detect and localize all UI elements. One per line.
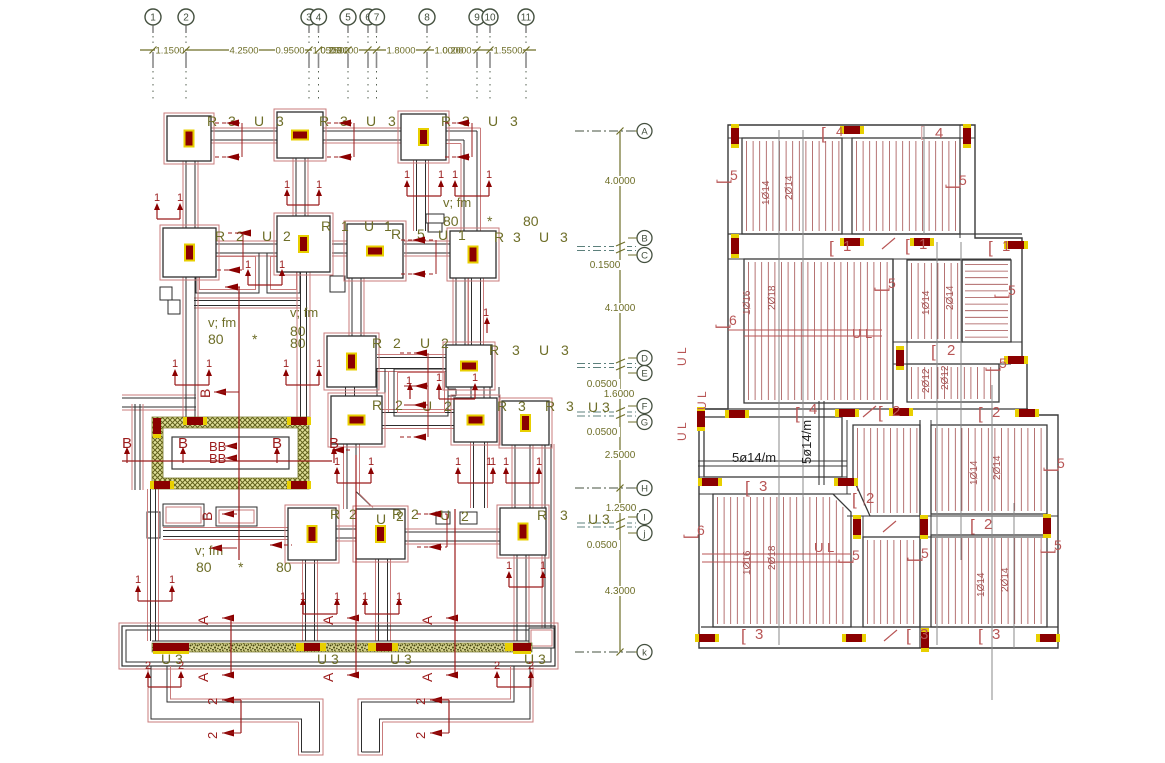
grid bubble 10 [482, 9, 498, 25]
bottom band lines [701, 626, 1058, 628]
svg-text:1: 1 [472, 372, 478, 384]
svg-text:3: 3 [560, 507, 568, 523]
svg-text:U: U [539, 342, 549, 358]
rebar callout pair P-G [286, 384, 319, 386]
svg-text:2: 2 [183, 13, 189, 24]
svg-text:4.1000: 4.1000 [605, 303, 636, 314]
extra arrow P-R [409, 389, 411, 399]
svg-text:1: 1 [300, 591, 306, 603]
left wall below hatch box [150, 489, 152, 641]
construction line v6 [1013, 503, 1015, 648]
rebar line in ML room [728, 329, 882, 331]
svg-text:[: [ [988, 238, 993, 257]
svg-text:1: 1 [483, 307, 489, 319]
svg-text:v; fm: v; fm [290, 305, 318, 320]
svg-text:7: 7 [374, 13, 380, 24]
svg-text:2: 2 [494, 660, 500, 672]
svg-text:R: R [391, 226, 401, 242]
svg-text:2: 2 [205, 732, 220, 739]
rebar callout pair P-J [458, 482, 493, 484]
svg-text:5ø14/m: 5ø14/m [732, 450, 776, 465]
single arrow S1 [486, 323, 488, 333]
svg-text:2: 2 [283, 228, 291, 244]
vertical beam C5 down [300, 272, 302, 417]
svg-text:E: E [641, 369, 647, 380]
svg-text:[: [ [745, 478, 750, 497]
svg-text:1: 1 [1002, 238, 1010, 255]
grid bubble D [637, 351, 652, 366]
column C13 [499, 398, 552, 448]
vertical wall x847 [846, 420, 848, 494]
svg-text:R: R [494, 229, 504, 245]
svg-text:1: 1 [150, 13, 156, 24]
svg-text:U: U [366, 113, 376, 129]
svg-text:[: [ [1042, 467, 1059, 472]
right foundation leg [362, 666, 515, 752]
top beam row C2-C3 [323, 130, 401, 132]
svg-text:U L: U L [814, 540, 834, 555]
svg-text:1: 1 [316, 358, 322, 370]
column C14 [285, 505, 339, 563]
wall below 5ø14 room [699, 476, 847, 478]
svg-text:1Ø16: 1Ø16 [742, 290, 753, 315]
svg-text:4.0000: 4.0000 [605, 176, 636, 187]
vertical wall between BL and BM [850, 512, 852, 627]
svg-text:[: [ [715, 179, 732, 184]
column C9 [324, 333, 379, 390]
slab panel TL [742, 138, 842, 234]
slab panel TR [852, 138, 960, 234]
svg-text:[: [ [1039, 549, 1056, 554]
partition wall b [194, 300, 300, 302]
rebar callout pair P-C2 [287, 204, 319, 206]
column C10 [443, 342, 495, 390]
svg-text:2: 2 [866, 490, 874, 507]
svg-text:v; fm: v; fm [208, 315, 236, 330]
slab panel ML [744, 259, 893, 403]
svg-text:3: 3 [759, 478, 767, 495]
svg-text:R: R [321, 218, 331, 234]
svg-text:1: 1 [341, 218, 349, 234]
svg-text:[: [ [931, 342, 936, 361]
svg-text:BB: BB [209, 451, 226, 466]
svg-text:3: 3 [388, 113, 396, 129]
vertical beam C4 down [185, 277, 187, 417]
svg-text:U L: U L [675, 347, 689, 366]
partition room below C4-C5 beam right [267, 253, 300, 293]
svg-text:A: A [419, 672, 435, 682]
svg-text:B: B [197, 389, 213, 398]
top dimension line [140, 49, 536, 51]
svg-text:2: 2 [145, 660, 151, 672]
svg-text:U: U [488, 113, 498, 129]
svg-text:1Ø14: 1Ø14 [761, 180, 772, 205]
svg-text:3: 3 [513, 229, 521, 245]
svg-text:5ø14/m: 5ø14/m [799, 420, 814, 464]
svg-text:[: [ [878, 403, 883, 422]
partition room below C4-C5 beam left [196, 253, 259, 293]
svg-text:1: 1 [486, 169, 492, 181]
rebar callout pair P-R [439, 398, 475, 400]
vertical below C14 [305, 560, 307, 641]
svg-text:80: 80 [276, 559, 292, 575]
grid bubble F [637, 399, 652, 414]
section arrow motif M3 [445, 122, 472, 124]
svg-text:1Ø14: 1Ø14 [921, 290, 932, 315]
column C11 [328, 393, 385, 447]
svg-text:1.1500: 1.1500 [155, 46, 184, 57]
vertical wall between BM and BR [919, 420, 921, 648]
svg-text:1: 1 [438, 169, 444, 181]
grid bubble j [637, 526, 652, 541]
svg-text:[: [ [905, 236, 910, 255]
5ø14 room walls [704, 417, 842, 477]
svg-text:A: A [195, 672, 211, 682]
door jamb b [168, 300, 180, 314]
svg-text:80: 80 [443, 213, 459, 229]
svg-text:U: U [262, 228, 272, 244]
svg-text:*: * [238, 559, 244, 575]
svg-text:1: 1 [245, 259, 251, 271]
svg-text:U: U [254, 113, 264, 129]
slab panel M-small [907, 364, 999, 402]
svg-text:1: 1 [279, 259, 285, 271]
svg-text:R: R [207, 113, 217, 129]
svg-text:G: G [641, 418, 648, 429]
svg-text:1: 1 [506, 560, 512, 572]
svg-text:2: 2 [947, 342, 955, 359]
svg-text:4: 4 [935, 125, 943, 142]
jog right of partition room [448, 388, 456, 390]
svg-text:80: 80 [196, 559, 212, 575]
svg-text:U: U [539, 229, 549, 245]
svg-text:3: 3 [566, 398, 574, 414]
column C3 [398, 111, 449, 163]
door jamb a [160, 287, 172, 300]
rebar callout pair P-K [506, 482, 539, 484]
band line between top and middle [728, 233, 1022, 235]
column C4 [160, 225, 219, 280]
svg-text:1Ø14: 1Ø14 [976, 572, 987, 597]
svg-text:1: 1 [284, 179, 290, 191]
column C6 [344, 221, 406, 281]
svg-text:k: k [642, 648, 647, 659]
slab panel BM-lower [863, 537, 920, 627]
rebar callout pair P-H [138, 600, 172, 602]
svg-text:2Ø14: 2Ø14 [784, 175, 795, 200]
svg-text:1: 1 [919, 236, 927, 253]
svg-text:2: 2 [413, 698, 428, 705]
svg-text:[: [ [978, 626, 983, 645]
svg-text:1: 1 [206, 358, 212, 370]
section line B vertical [238, 287, 240, 560]
svg-text:1: 1 [536, 456, 542, 468]
door jamb c [330, 276, 345, 292]
svg-text:2.5000: 2.5000 [605, 450, 636, 461]
rebar callout pair P-B [407, 195, 441, 197]
svg-text:[: [ [741, 626, 746, 645]
grid bubble 11 [518, 9, 534, 25]
svg-text:U: U [420, 335, 430, 351]
svg-text:[: [ [852, 490, 857, 509]
connector right C10-C13 [489, 387, 491, 399]
svg-text:1: 1 [169, 574, 175, 586]
svg-text:0.0500: 0.0500 [587, 427, 618, 438]
svg-text:1: 1 [368, 456, 374, 468]
svg-text:2: 2 [395, 397, 403, 413]
top-right vertical beam [463, 140, 465, 231]
section arrow motif M1 [215, 122, 242, 124]
grid bubble 5 [340, 9, 356, 25]
svg-text:U: U [440, 507, 450, 523]
svg-text:2Ø14: 2Ø14 [992, 455, 1003, 480]
small room a [163, 504, 204, 526]
grid bubble G [637, 415, 652, 430]
svg-text:3: 3 [510, 113, 518, 129]
svg-text:U L: U L [852, 326, 872, 341]
section arrow motif M2 [327, 122, 354, 124]
row4 beam C14-C15 [336, 528, 356, 530]
svg-text:1: 1 [436, 372, 442, 384]
connector C9-C11 [345, 387, 347, 396]
svg-text:U 3: U 3 [588, 511, 610, 527]
bottom strip anchor blocks [153, 643, 189, 651]
rebar callout pair P-L [509, 586, 543, 588]
svg-text:F: F [642, 402, 648, 413]
grid bubble 9 [469, 9, 485, 25]
vertical beam C2-C5 [295, 158, 297, 216]
rebar callout pair P-V14 [303, 613, 337, 615]
sideways B bottom arrow [210, 545, 222, 552]
grid bubble 3 [301, 9, 317, 25]
svg-text:R: R [441, 113, 451, 129]
svg-text:R: R [537, 507, 547, 523]
svg-text:R: R [215, 228, 225, 244]
right grid dimension texts [602, 176, 638, 186]
svg-text:U: U [364, 218, 374, 234]
svg-text:80: 80 [290, 335, 306, 351]
bottom band right notch [529, 628, 554, 648]
svg-text:1: 1 [334, 591, 340, 603]
svg-text:1: 1 [455, 456, 461, 468]
construction line v7 [923, 126, 925, 234]
svg-text:4.2500: 4.2500 [229, 46, 258, 57]
row2 beam C6-C7 [404, 243, 450, 245]
rebar callout pair P-M [148, 686, 181, 688]
middle vertical wall [892, 259, 894, 409]
wall above vfm room [163, 530, 288, 532]
svg-text:1: 1 [503, 456, 509, 468]
slab panel BM-upper [853, 425, 920, 516]
svg-text:A: A [419, 615, 435, 625]
svg-text:U L: U L [675, 422, 689, 441]
svg-text:2Ø12: 2Ø12 [940, 365, 951, 390]
grid bubble 7 [369, 9, 385, 25]
svg-text:1.8000: 1.8000 [386, 46, 415, 57]
svg-text:A: A [641, 127, 648, 138]
vertical below C11 [346, 444, 348, 509]
svg-text:R: R [545, 398, 555, 414]
svg-text:2Ø14: 2Ø14 [945, 285, 956, 310]
bottom band inner wall top [152, 640, 532, 642]
svg-text:[: [ [978, 404, 983, 423]
rebar callout pair P-C [455, 195, 489, 197]
svg-text:I: I [643, 513, 646, 524]
right plan top section inner lines [728, 137, 975, 139]
svg-text:1: 1 [362, 591, 368, 603]
rebar callout pair P-N [497, 686, 531, 688]
row4 beam C15-C16 [405, 531, 500, 533]
beam C9-C10 [377, 357, 446, 359]
rebar callout pair P-C45 [248, 284, 282, 286]
single dashed arrow near C14 [270, 544, 292, 546]
svg-text:A: A [320, 672, 336, 682]
svg-text:[: [ [993, 294, 1010, 299]
svg-text:0.9500: 0.9500 [275, 46, 304, 57]
svg-text:9: 9 [474, 13, 480, 24]
grid bubble 6 [360, 9, 376, 25]
arrow into B line [225, 286, 240, 288]
vertical below C13 [514, 444, 516, 508]
door jamb e [428, 223, 442, 232]
svg-text:R: R [330, 506, 340, 522]
bottom section top band [699, 408, 1028, 410]
svg-text:1: 1 [154, 192, 160, 204]
svg-text:U L: U L [695, 391, 709, 410]
left lower wall [122, 397, 196, 399]
slab panel BL [713, 494, 851, 627]
svg-text:4: 4 [836, 124, 843, 139]
column C15 [353, 506, 408, 562]
svg-text:[: [ [821, 124, 826, 143]
svg-text:2: 2 [393, 335, 401, 351]
svg-text:2: 2 [984, 516, 992, 533]
row2 beam C4-C5 [216, 243, 277, 245]
svg-text:*: * [252, 331, 258, 347]
rebar line 2 in ML room [744, 335, 882, 337]
grid dash-dot extension lines [575, 130, 636, 132]
svg-text:2: 2 [461, 508, 469, 524]
top beam C3-corner [446, 130, 477, 132]
svg-text:3: 3 [561, 342, 569, 358]
svg-text:2: 2 [444, 398, 452, 414]
svg-text:R: R [319, 113, 329, 129]
svg-text:1: 1 [316, 179, 322, 191]
svg-text:1: 1 [458, 227, 466, 243]
svg-text:[: [ [906, 626, 911, 645]
svg-text:B: B [199, 512, 215, 521]
hatch box inner white room [172, 437, 289, 469]
svg-text:80: 80 [523, 213, 539, 229]
svg-text:0.0500: 0.0500 [587, 540, 618, 551]
svg-text:2: 2 [205, 698, 220, 705]
svg-text:1: 1 [334, 456, 340, 468]
vertical beam below C3 [416, 160, 418, 231]
jamb left wall notch [147, 512, 160, 538]
svg-text:[: [ [970, 516, 975, 535]
vertical beam C7 down a [455, 278, 457, 345]
svg-text:3: 3 [920, 626, 928, 643]
svg-text:3: 3 [560, 229, 568, 245]
svg-text:1: 1 [540, 560, 546, 572]
grid bubble H [637, 481, 652, 496]
grid bubble 2 [178, 9, 194, 25]
svg-text:2: 2 [441, 335, 449, 351]
svg-text:2: 2 [178, 660, 184, 672]
svg-text:B: B [641, 234, 647, 245]
svg-text:2Ø12: 2Ø12 [921, 368, 932, 393]
svg-text:8: 8 [424, 13, 430, 24]
left outer wall [134, 404, 136, 490]
single dashed arrow row3 [332, 449, 352, 451]
construction line v4 [960, 242, 962, 560]
rebar callout pair P-F [175, 384, 209, 386]
svg-text:A: A [195, 615, 211, 625]
svg-text:2: 2 [413, 732, 428, 739]
svg-text:U: U [438, 227, 448, 243]
svg-text:2Ø14: 2Ø14 [1000, 567, 1011, 592]
svg-text:80: 80 [208, 331, 224, 347]
column C7 [447, 228, 499, 281]
grid bubble B [637, 231, 652, 246]
svg-text:0.2000: 0.2000 [442, 46, 471, 57]
bottom speckled strip [152, 643, 532, 652]
svg-text:D: D [641, 354, 648, 365]
chamfer below C11 [356, 492, 371, 507]
svg-text:v; fm: v; fm [443, 195, 471, 210]
column C1 [164, 113, 214, 164]
svg-text:1: 1 [486, 456, 492, 468]
column C12 [451, 395, 500, 445]
svg-text:R: R [372, 335, 382, 351]
bottom foundation outer walls [122, 626, 555, 666]
grid bubble 1 [145, 9, 161, 25]
section line B-B horizontal [122, 460, 332, 462]
door jamb d [426, 214, 444, 223]
svg-text:U 3: U 3 [588, 399, 610, 415]
svg-text:[: [ [944, 184, 961, 189]
svg-text:2: 2 [892, 403, 900, 420]
crosshatched box outer band [152, 417, 309, 489]
vertical below C15 [378, 559, 380, 641]
rebar callout pair P-V15 [365, 613, 399, 615]
column C2 [274, 109, 326, 161]
svg-text:[: [ [984, 367, 1001, 372]
left foundation leg [167, 666, 320, 752]
construction line v3 [936, 242, 938, 645]
rebar lines in BL room [702, 553, 851, 555]
grid bubble A [637, 124, 652, 139]
right grid dimension line [619, 131, 621, 652]
svg-text:R: R [497, 398, 507, 414]
svg-text:1Ø14: 1Ø14 [969, 460, 980, 485]
slab panel BR-upper [931, 425, 1047, 514]
svg-text:2Ø18: 2Ø18 [767, 545, 778, 570]
svg-text:1: 1 [404, 169, 410, 181]
rebar callout pair P-A [157, 218, 180, 220]
svg-text:11: 11 [521, 13, 532, 24]
svg-text:H: H [641, 484, 648, 495]
anchor blocks right plan [731, 128, 739, 144]
row3 beam C11-C12 [382, 412, 454, 414]
svg-text:R: R [489, 342, 499, 358]
construction line v5 [991, 385, 993, 700]
svg-text:*: * [487, 213, 493, 229]
mid band bottom section [847, 515, 1058, 517]
svg-text:U 3: U 3 [317, 651, 339, 667]
svg-text:1Ø16: 1Ø16 [742, 550, 753, 575]
top beam row C1-C2 [211, 130, 277, 132]
